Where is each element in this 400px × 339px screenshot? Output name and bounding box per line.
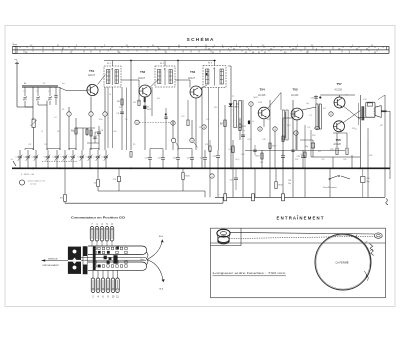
wire column x385 <box>384 95 386 168</box>
wire drop x243 <box>242 168 244 197</box>
svg-text:R24: R24 <box>287 125 290 127</box>
node test point 13b <box>171 138 175 142</box>
output transformer TR2 <box>362 106 365 120</box>
wire oscillator frame <box>32 87 34 120</box>
ganged capacitor dashed link <box>42 161 78 163</box>
capacitor C26 <box>282 150 284 155</box>
resistor R23 below rail <box>182 168 184 172</box>
svg-text:C33: C33 <box>44 144 47 146</box>
wire box1 to T52 <box>121 79 139 81</box>
wires under F1.3 <box>208 88 210 151</box>
svg-text:4k7: 4k7 <box>157 98 160 100</box>
node test point 2 <box>90 97 92 151</box>
svg-text:AC132: AC132 <box>291 94 299 97</box>
trimmer capacitor C7 <box>64 150 66 156</box>
svg-text:0: 0 <box>13 43 14 45</box>
IF transformer F1.3 <box>203 66 226 88</box>
trimmer capacitor CV1 <box>24 87 26 96</box>
dial cord upper <box>230 232 375 234</box>
svg-text:4k7: 4k7 <box>323 108 326 110</box>
diode D3 under T52 <box>143 106 146 109</box>
capacitor C56 <box>361 177 366 183</box>
wire column x368b <box>367 128 369 140</box>
wire column x210 <box>209 150 211 168</box>
svg-text:C3: C3 <box>48 91 50 93</box>
svg-text:C28: C28 <box>297 156 300 158</box>
wire drop x218 <box>217 168 219 197</box>
switch slider upper bar <box>88 246 147 255</box>
wire bottom bus y191 <box>97 187 99 192</box>
resistor R4 cluster <box>86 128 88 136</box>
svg-text:AF127: AF127 <box>138 77 146 80</box>
svg-text:T57: T57 <box>337 82 343 86</box>
wire drop x330 <box>329 168 331 197</box>
arrow junction <box>147 258 149 261</box>
wire aerial to T51 base <box>58 87 66 90</box>
wire T53 to F1.3 diagonal <box>201 85 207 88</box>
node test point 11 <box>135 120 139 124</box>
svg-text:R42: R42 <box>369 155 372 157</box>
svg-text:R28: R28 <box>205 144 208 146</box>
svg-text:ant: ant <box>14 58 17 61</box>
transistor T55 <box>291 108 303 120</box>
wire drop x255 <box>254 168 256 197</box>
svg-text:SENS DE: SENS DE <box>48 258 58 260</box>
svg-text:AC126: AC126 <box>258 94 266 97</box>
svg-text:Prise Écouteur: Prise Écouteur <box>323 186 337 189</box>
transistor T52 <box>139 85 151 97</box>
svg-text:15: 15 <box>274 129 276 131</box>
trimmer capacitor CV2 <box>37 87 39 96</box>
wire column x293 supply <box>292 100 294 168</box>
switch contact black center small <box>104 256 107 260</box>
svg-text:C59: C59 <box>321 159 324 161</box>
diode D2 small <box>248 121 250 125</box>
leader wire tp13 <box>194 142 198 147</box>
wire top pushpull <box>320 94 355 96</box>
switch contact black center big <box>113 255 117 263</box>
svg-text:C61: C61 <box>345 95 348 97</box>
svg-text:10µ: 10µ <box>306 103 309 105</box>
svg-text:14: 14 <box>259 129 261 131</box>
svg-text:L7: L7 <box>355 129 357 131</box>
resistor R3 <box>90 130 92 136</box>
svg-text:6: 6 <box>211 176 212 178</box>
capacitor C16 <box>162 150 164 157</box>
dial scale ticks band 1 <box>19 46 21 48</box>
svg-text:son régl: son régl <box>30 182 37 185</box>
wire segment y140 <box>300 139 313 141</box>
wire T57 collector to TR2 <box>344 106 361 119</box>
trimmer capacitor C2 <box>27 150 29 156</box>
svg-text:R38: R38 <box>330 149 333 151</box>
switch contact squares lower row2 <box>94 261 96 263</box>
junction dot <box>165 114 167 116</box>
wire drop x210 <box>209 168 211 197</box>
wire column x83 <box>82 128 84 150</box>
wire column x368 <box>367 140 369 168</box>
wire base T51 <box>89 84 91 87</box>
node test point 3 <box>104 87 106 150</box>
svg-text:C22: C22 <box>213 156 216 158</box>
capacitor C14 below rail <box>118 168 120 176</box>
switch contact lug bottom 6 <box>101 278 105 293</box>
switch slider shaft <box>81 257 146 259</box>
IF transformer F1.1 <box>104 66 121 87</box>
svg-text:C6: C6 <box>101 130 103 132</box>
wire drop x305 <box>304 168 306 197</box>
switch frame black block lower <box>68 262 81 274</box>
cord wrap ticks on drum rim <box>356 235 358 238</box>
wire speaker feed <box>381 110 386 112</box>
switch contact black column left <box>93 247 96 271</box>
svg-text:3: 3 <box>104 114 105 116</box>
svg-text:T51: T51 <box>89 69 95 73</box>
svg-text:19: 19 <box>330 114 332 116</box>
svg-text:AC128: AC128 <box>334 143 342 146</box>
resistor R12 <box>239 118 241 140</box>
svg-text:C52: C52 <box>307 127 310 129</box>
capacitor C15 <box>149 150 151 157</box>
wire drop x233 <box>232 168 234 197</box>
circled node 6 <box>210 174 214 178</box>
svg-text:C2: C2 <box>36 91 38 93</box>
svg-text:C5: C5 <box>97 135 99 137</box>
loudspeaker cone <box>375 106 381 118</box>
wire box2 to T53 <box>175 79 190 81</box>
switch contact squares upper row2 <box>94 251 96 253</box>
svg-text:C21: C21 <box>206 119 209 121</box>
drum spring <box>370 244 374 256</box>
svg-text:2: 2 <box>90 114 91 116</box>
svg-text:AC128: AC128 <box>335 88 343 91</box>
volume potentiometer P1 <box>234 101 237 128</box>
switch contact black extra <box>116 247 119 250</box>
capacitor C55 <box>314 96 318 98</box>
resistor R5 below rail <box>97 168 99 179</box>
wire drop x283 <box>282 168 284 197</box>
svg-text:E N T R A Î N E M E N T: E N T R A Î N E M E N T <box>277 215 324 220</box>
IF transformer F1.2 <box>155 66 175 87</box>
svg-text:Commutateur en Position GO: Commutateur en Position GO <box>71 215 126 219</box>
battery connector wire <box>204 191 206 197</box>
svg-text:16: 16 <box>295 133 297 135</box>
wire emitter T55 <box>296 120 298 150</box>
loudspeaker HP <box>366 102 375 117</box>
wire drop x368 <box>367 168 369 197</box>
driver transformer TR1 <box>316 104 318 129</box>
svg-text:C56: C56 <box>367 178 370 180</box>
resistor R40 <box>346 133 348 147</box>
resistor R31 on bottom rail <box>282 194 285 201</box>
switch contact lug bottom 9 <box>106 278 110 293</box>
node test point 18 <box>202 125 206 129</box>
svg-text:C36: C36 <box>71 131 74 133</box>
svg-text:C40: C40 <box>113 131 116 133</box>
node test point 17 <box>249 102 253 106</box>
wire bottom bus y203 <box>64 202 66 204</box>
svg-text:L5: L5 <box>41 131 43 133</box>
switch contact black upper <box>98 251 101 254</box>
svg-text:R14: R14 <box>199 127 202 129</box>
wire TR2 vertical <box>359 95 361 168</box>
resistor R27 on bottom rail <box>224 194 227 201</box>
svg-text:C34: C34 <box>288 180 291 182</box>
trimmer capacitor C13 <box>105 150 107 156</box>
wire column x126 <box>126 88 128 151</box>
svg-text:C14: C14 <box>113 179 116 181</box>
svg-text:AF127: AF127 <box>188 77 196 80</box>
ferrite rod aerial L1 <box>22 86 58 88</box>
capacitor C23 <box>253 149 256 151</box>
svg-text:17: 17 <box>250 104 252 106</box>
volume potentiometer wire <box>230 66 232 168</box>
bottom rail y197 <box>215 196 385 198</box>
svg-text:C31: C31 <box>28 144 31 146</box>
switch contact lug bottom 2 <box>91 278 95 293</box>
svg-text:P1: P1 <box>232 96 234 98</box>
svg-text:C4: C4 <box>54 117 56 119</box>
switch contact squares lower row <box>94 265 96 267</box>
chassis line inside box <box>211 242 386 244</box>
capacitor C6 cluster <box>97 131 101 133</box>
resistor R7 mid <box>138 87 140 99</box>
node test point 19 <box>329 112 333 116</box>
svg-text:AF127: AF127 <box>88 74 96 77</box>
svg-text:T52: T52 <box>140 70 146 74</box>
svg-text:1k: 1k <box>252 121 254 123</box>
svg-text:Longueur entre boucles : 710: Longueur entre boucles : 710 mm <box>213 271 287 275</box>
svg-text:T53: T53 <box>190 70 196 74</box>
wire column x311b <box>310 130 312 157</box>
svg-text:50µ: 50µ <box>367 181 370 183</box>
switch contact lug bottom 4 <box>96 278 100 293</box>
trimmer capacitor C4 <box>47 150 49 156</box>
resistor R21 <box>304 152 306 158</box>
svg-text:R22: R22 <box>267 119 270 121</box>
dial scale ticks band 2 <box>23 50 25 53</box>
trimmer capacitor C12 <box>97 150 99 156</box>
wire trimmer row connectors <box>25 148 33 150</box>
capacitor C27 <box>291 149 294 151</box>
capacitor C8 <box>120 111 124 113</box>
wire top bus <box>104 60 216 62</box>
svg-text:4Ω7: 4Ω7 <box>260 162 263 164</box>
switch frame notch <box>73 258 77 260</box>
svg-text:1: 1 <box>68 114 69 116</box>
svg-text:C46: C46 <box>228 149 231 151</box>
capacitor C22 <box>217 150 219 155</box>
transistor T57 <box>334 97 345 108</box>
svg-text:tensions réglées à côté: tensions réglées à côté <box>28 180 45 183</box>
svg-text:S C H É M A: S C H É M A <box>187 35 214 42</box>
wire emitter T54 <box>263 120 265 127</box>
wire antenna to oscillator <box>17 106 33 108</box>
capacitor C20 <box>204 150 206 157</box>
entrainement box <box>211 228 386 298</box>
dial scale right end cap <box>388 46 390 53</box>
capacitor C4a <box>55 87 57 95</box>
svg-text:C31: C31 <box>230 180 233 182</box>
detector diode dot <box>206 73 208 75</box>
capacitor C18 <box>177 150 179 157</box>
sens de deplacement arrow <box>42 260 69 262</box>
svg-text:R34: R34 <box>312 135 315 137</box>
svg-text:13: 13 <box>191 140 193 142</box>
wire column x178 <box>177 61 179 151</box>
svg-text:R32: R32 <box>295 159 298 161</box>
oscillator coil L3 <box>32 119 35 128</box>
cord end loop <box>374 233 382 238</box>
cord arrow upper <box>148 240 162 260</box>
wire drop x293 <box>292 168 294 197</box>
wire emitter T53 <box>195 98 197 150</box>
node test point 13 <box>190 138 194 142</box>
pulley bracket <box>240 228 242 245</box>
resistor R11 <box>209 146 211 152</box>
electrolytic capacitor C57 <box>312 140 314 157</box>
svg-text:R1: R1 <box>62 109 64 111</box>
node test point 12 <box>171 121 175 125</box>
resistor R1 below rail <box>64 168 66 194</box>
node test point 15 <box>273 127 277 131</box>
svg-text:C.7: C.7 <box>309 115 312 117</box>
capacitor C19 <box>191 150 193 157</box>
capacitor C5 cluster <box>93 136 96 138</box>
wire column x152 <box>151 87 153 116</box>
capacitor C31 below rail <box>234 177 238 179</box>
wire segment y133 <box>333 132 347 134</box>
svg-text:R30: R30 <box>241 154 244 156</box>
resistor R6b emitter <box>144 97 146 102</box>
resistor R5a <box>130 152 132 158</box>
svg-text:R16: R16 <box>214 107 217 109</box>
svg-text:25µ: 25µ <box>288 183 291 185</box>
svg-text:C44: C44 <box>190 159 193 161</box>
svg-text:OA70: OA70 <box>253 96 258 99</box>
cord arrow lower <box>148 260 163 282</box>
transistor T56 <box>334 121 345 132</box>
svg-text:C1: C1 <box>23 91 25 93</box>
resistor R39 <box>336 133 338 147</box>
svg-text:C24: C24 <box>247 139 250 141</box>
drum cord clamp <box>364 271 368 281</box>
svg-text:11: 11 <box>136 122 138 124</box>
wire column x283 <box>282 118 284 168</box>
AGC dashed link <box>139 121 170 123</box>
resistor R29 on bottom rail <box>252 194 255 201</box>
svg-text:T54: T54 <box>260 88 266 92</box>
dial scale bottom line <box>13 52 390 54</box>
wire x390 lower <box>389 168 391 179</box>
svg-text:T56: T56 <box>336 138 342 142</box>
resistor R2 <box>75 118 77 150</box>
dial cord lower dashed <box>229 236 374 238</box>
switch frame column 2 <box>83 247 87 257</box>
resistor R6 <box>121 87 123 150</box>
legend measurement circle <box>19 180 24 185</box>
junction dots on top bus <box>130 60 131 61</box>
resistor R20 <box>261 150 263 168</box>
switch contact black lower <box>98 265 101 268</box>
switch shaft tip <box>146 252 148 259</box>
svg-text:DÉPLACEMENT: DÉPLACEMENT <box>43 264 60 267</box>
resistor R13 <box>232 140 234 168</box>
wire collector T54 <box>268 93 282 109</box>
resistor R15 mid <box>187 120 189 126</box>
dial scale left end cap <box>13 46 18 53</box>
switch slider lower bar <box>88 262 147 270</box>
svg-text:5k: 5k <box>220 124 222 126</box>
wire column x390 <box>389 111 391 168</box>
svg-text:T55: T55 <box>293 88 299 92</box>
svg-text:C60: C60 <box>343 159 346 161</box>
earphone jack <box>330 176 338 179</box>
resistor R19 <box>282 136 284 142</box>
wire column x131 <box>130 61 132 151</box>
wire column x47 <box>46 118 48 150</box>
switch contact squares upper row <box>94 247 96 249</box>
wire column x60 <box>59 87 61 150</box>
node test point 14 <box>258 127 262 131</box>
antenna symbol <box>16 63 18 107</box>
capacitor under TR1 <box>315 127 320 130</box>
dial scale top line <box>13 45 390 47</box>
wire drop x225 <box>224 168 226 197</box>
trimmer capacitor C10 <box>81 150 83 156</box>
svg-text:R37: R37 <box>318 151 321 153</box>
capacitor C30 <box>242 100 244 168</box>
transistor T53 <box>190 86 202 98</box>
svg-text:Mouv: Mouv <box>140 259 144 261</box>
svg-text:5µ: 5µ <box>243 130 245 132</box>
svg-text:C55: C55 <box>311 98 314 100</box>
svg-text:C58: C58 <box>363 99 366 101</box>
wire T52 to F1.2 diagonal <box>150 79 159 88</box>
svg-text:C48: C48 <box>262 139 265 141</box>
resistor R17 <box>269 143 271 149</box>
svg-text:2 - 90 1L - 00: 2 - 90 1L - 00 <box>21 174 35 176</box>
leader wire tp13b <box>175 142 179 147</box>
node test point 16 <box>294 131 298 135</box>
wire emitter T52 <box>144 97 146 150</box>
wire cluster joins <box>83 127 95 129</box>
svg-text:R5: R5 <box>133 144 135 146</box>
svg-text:50µ: 50µ <box>305 146 308 148</box>
node test point 1 <box>68 107 70 150</box>
tuning pulley <box>217 229 230 237</box>
svg-text:4078: 4078 <box>147 109 151 111</box>
resistor R9 <box>224 105 226 168</box>
trimmer capacitor C1 <box>19 150 21 156</box>
wire T55 to TR1 <box>302 107 316 110</box>
switch frame rivet lower <box>73 266 77 270</box>
wire column x202 <box>201 87 203 168</box>
wire T56 collector to TR2 <box>343 111 360 123</box>
junction dot TR1 top <box>319 97 321 99</box>
capacitor C28 <box>302 150 304 156</box>
wire T51 to F1.1 diagonal <box>98 75 106 85</box>
tuning drum <box>315 234 371 290</box>
svg-text:C8: C8 <box>117 113 119 115</box>
dial scale middle line <box>13 49 390 51</box>
wire column x270 <box>269 100 271 168</box>
svg-text:R8: R8 <box>119 107 121 109</box>
svg-text:C47µ: C47µ <box>235 159 239 161</box>
trimmer capacitor CV3 <box>49 87 51 96</box>
trimmer capacitor C9 <box>72 150 74 156</box>
capacitor C17 mid <box>164 116 167 118</box>
